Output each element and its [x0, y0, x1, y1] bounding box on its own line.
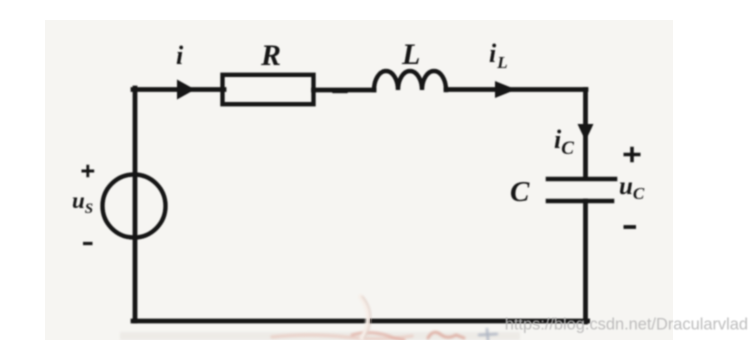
wire top from left corner to resistor: [133, 87, 224, 92]
svg-text:i: i: [176, 41, 184, 70]
wire resistor to inductor: [314, 88, 375, 93]
wire bottom: [133, 319, 588, 324]
wire left vertical: [133, 88, 138, 321]
arrowhead current i: [177, 80, 195, 100]
arrowhead current iL: [495, 81, 516, 98]
blob artifact on wire: [334, 90, 346, 93]
svg-text:L: L: [401, 38, 420, 71]
minus sign right: [624, 225, 637, 229]
wire right vertical upper: [583, 90, 588, 179]
minus sign left: [83, 242, 93, 245]
resistor R: [223, 75, 314, 104]
pink artifact scribbles: [272, 329, 497, 340]
voltage source US circle: [103, 175, 166, 238]
svg-text:R: R: [260, 39, 281, 72]
white-out curve artifact over bottom wire: [359, 295, 368, 340]
svg-text:https://blog.csdn.net/Dracular: https://blog.csdn.net/Dracularvlad: [505, 316, 748, 334]
capacitor C top plate: [548, 177, 615, 182]
plus sign left: [82, 165, 95, 178]
inductor L: [374, 71, 446, 90]
wire inductor to right corner: [446, 87, 586, 92]
capacitor C bottom plate: [548, 199, 612, 204]
bottom faded gray band: [120, 332, 520, 340]
wire right vertical lower: [583, 201, 588, 322]
plus sign right: [624, 147, 641, 162]
svg-text:C: C: [510, 176, 530, 208]
scanned page area: [45, 20, 673, 340]
arrowhead current iC: [578, 124, 594, 141]
